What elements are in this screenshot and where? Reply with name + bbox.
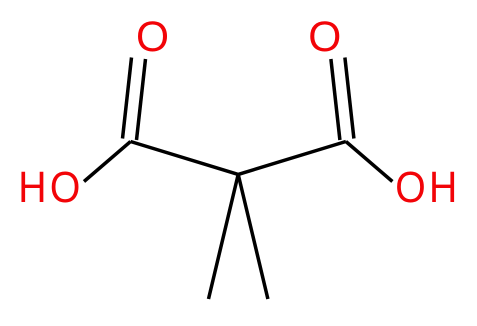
double bond C=O right bbox=[331, 58, 354, 141]
svg-text:OH: OH bbox=[395, 162, 460, 212]
svg-text:O: O bbox=[308, 14, 341, 61]
bond C-OH left bbox=[84, 142, 131, 182]
bond C-OH right bbox=[346, 142, 393, 182]
bond central C to left methyl bbox=[209, 174, 239, 299]
bond left carboxyl C to central C bbox=[131, 142, 239, 175]
double bond C=O left bbox=[123, 58, 146, 141]
svg-text:O: O bbox=[136, 14, 169, 61]
bond central C to right methyl bbox=[238, 174, 268, 299]
svg-text:HO: HO bbox=[18, 162, 83, 212]
bond right carboxyl C to central C bbox=[238, 142, 346, 175]
